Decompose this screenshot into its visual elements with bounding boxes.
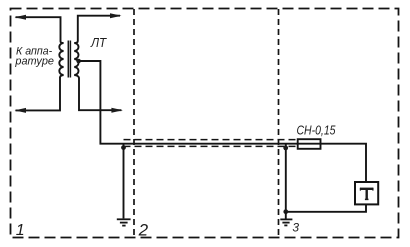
svg-text:ЛТ: ЛТ — [90, 35, 107, 50]
svg-text:3: 3 — [292, 221, 299, 235]
arrester T box — [355, 182, 378, 204]
wire: loop left vertical — [285, 144, 287, 212]
node: junction at fuse input — [283, 146, 288, 151]
dashed divider between zone 2 and zone 3 — [278, 9, 280, 237]
node: junction at loop bottom — [283, 209, 288, 214]
svg-text:ратуре: ратуре — [14, 56, 54, 68]
wire: T box bottom to loop bottom — [286, 204, 366, 211]
dashed divider between zone 1 and zone 2 — [133, 9, 135, 237]
arrowhead bottom-left — [15, 108, 27, 113]
transformer core — [67, 41, 69, 78]
svg-text:1: 1 — [16, 222, 25, 239]
arrowhead top-right — [110, 13, 122, 18]
node: secondary tap junction — [76, 59, 81, 64]
arrowhead top-left — [15, 15, 27, 20]
ground symbol zone 2 — [117, 219, 131, 225]
transformer ЛТ secondary winding (right coil) — [74, 41, 79, 78]
wire: bottom-right arrow line — [79, 78, 121, 110]
transformer ЛТ primary winding (left coil) — [59, 42, 63, 78]
wire: top-right arrow line — [78, 16, 120, 41]
ground symbol zone 3 — [280, 219, 292, 225]
svg-text:2: 2 — [138, 221, 149, 240]
dashed cable-run line upper — [124, 139, 298, 141]
node: ground tap junction zone 2 — [121, 145, 126, 150]
arrowhead bottom-right — [111, 108, 123, 113]
wire: tap to main horizontal run — [79, 61, 366, 182]
wire: bottom-left arrow line to apparatus — [16, 77, 61, 110]
wire: top-left arrow line to apparatus — [16, 17, 61, 41]
wire: zone 3 ground lead — [285, 212, 287, 219]
label: Т inside arrester box (drawn) — [360, 188, 373, 200]
dashed cable-run line lower — [124, 145, 298, 147]
wire: zone 2 ground lead — [123, 145, 125, 219]
svg-text:СН-0,15: СН-0,15 — [297, 122, 337, 137]
fuse СН-0,15 — [298, 139, 321, 149]
